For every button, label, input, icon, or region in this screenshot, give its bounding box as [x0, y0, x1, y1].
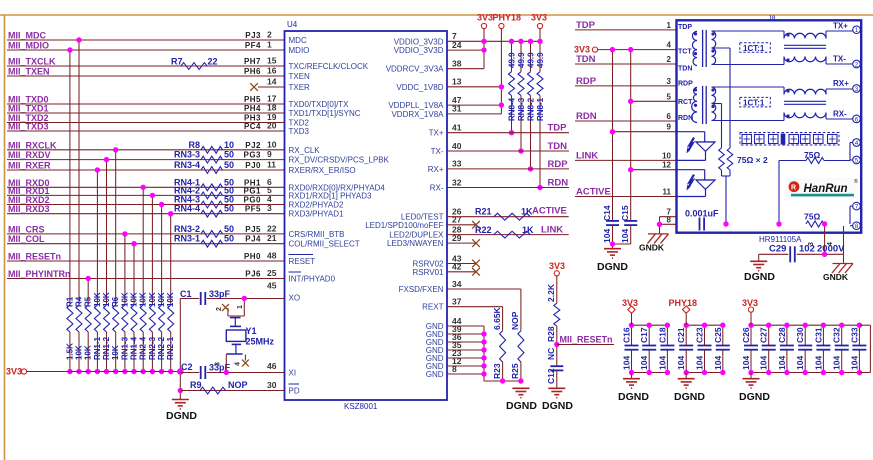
- svg-text:C18: C18: [657, 327, 667, 343]
- svg-text:RDN: RDN: [576, 111, 597, 122]
- svg-text:C25: C25: [713, 327, 723, 343]
- svg-text:RN2-4: RN2-4: [139, 336, 148, 360]
- svg-text:1CT:1: 1CT:1: [743, 44, 765, 53]
- svg-text:PH5: PH5: [244, 95, 261, 104]
- svg-text:TDP: TDP: [678, 24, 692, 31]
- svg-text:MII_PHYINTRn: MII_PHYINTRn: [8, 269, 71, 279]
- svg-text:R21: R21: [475, 207, 492, 217]
- svg-text:C26: C26: [741, 327, 751, 343]
- svg-text:PF5: PF5: [245, 205, 261, 214]
- svg-text:48: 48: [267, 251, 277, 261]
- svg-text:11: 11: [663, 188, 672, 197]
- svg-text:R25: R25: [510, 363, 520, 379]
- svg-text:50: 50: [224, 234, 234, 244]
- svg-text:RESET: RESET: [289, 257, 316, 266]
- svg-text:104: 104: [813, 356, 823, 370]
- svg-text:C29: C29: [769, 244, 786, 255]
- svg-text:2: 2: [216, 307, 223, 311]
- svg-text:DGND: DGND: [744, 271, 775, 283]
- svg-text:RDP: RDP: [548, 159, 569, 170]
- svg-text:PG0: PG0: [243, 196, 261, 205]
- svg-text:8: 8: [667, 215, 672, 224]
- svg-text:TXD0/TXD[0]/TX: TXD0/TXD[0]/TX: [289, 100, 350, 109]
- svg-text:C1: C1: [180, 289, 192, 299]
- svg-text:NOP: NOP: [228, 380, 248, 390]
- svg-text:10: 10: [267, 139, 277, 149]
- svg-text:15: 15: [267, 56, 277, 66]
- svg-text:RN2-3: RN2-3: [148, 336, 157, 360]
- svg-text:C17: C17: [639, 327, 649, 343]
- svg-text:RN8-4: RN8-4: [508, 97, 517, 121]
- svg-text:CRS/RMII_BTB: CRS/RMII_BTB: [289, 230, 345, 239]
- svg-text:RXER/RX_ER/ISO: RXER/RX_ER/ISO: [289, 166, 356, 175]
- svg-text:3V3: 3V3: [622, 298, 638, 308]
- svg-text:3V3: 3V3: [574, 45, 590, 55]
- svg-text:10K: 10K: [93, 292, 102, 307]
- svg-text:C21: C21: [676, 327, 686, 343]
- svg-text:6.65K: 6.65K: [492, 306, 502, 330]
- svg-text:3: 3: [667, 77, 672, 86]
- svg-text:PC4: PC4: [244, 122, 261, 131]
- svg-text:3: 3: [215, 362, 222, 366]
- svg-text:R5: R5: [84, 296, 93, 307]
- svg-text:MII_RXCLK: MII_RXCLK: [8, 140, 57, 150]
- svg-text:49.9: 49.9: [536, 52, 545, 68]
- svg-text:LED3/NWAYEN: LED3/NWAYEN: [387, 239, 444, 248]
- svg-text:TX-: TX-: [833, 55, 846, 64]
- svg-text:32: 32: [452, 177, 462, 187]
- svg-text:C27: C27: [759, 327, 769, 343]
- svg-text:MII_RXD3: MII_RXD3: [8, 204, 50, 214]
- svg-text:TX-: TX-: [431, 147, 444, 156]
- svg-text:11: 11: [267, 160, 276, 170]
- svg-text:DGND: DGND: [542, 400, 573, 412]
- svg-text:R8: R8: [188, 140, 200, 150]
- svg-text:R4: R4: [75, 296, 84, 307]
- svg-text:TXD3: TXD3: [289, 127, 310, 136]
- svg-text:3V3: 3V3: [742, 298, 758, 308]
- svg-text:RXD3/PHYAD1: RXD3/PHYAD1: [289, 210, 345, 219]
- svg-text:DGND: DGND: [166, 410, 197, 422]
- svg-text:MII_TXD3: MII_TXD3: [8, 122, 49, 132]
- svg-text:MII_MDIO: MII_MDIO: [8, 41, 49, 51]
- svg-text:GNDK: GNDK: [639, 243, 665, 253]
- svg-text:LINK: LINK: [541, 225, 563, 236]
- svg-text:RN1-1: RN1-1: [93, 336, 102, 360]
- svg-text:50: 50: [224, 224, 234, 234]
- svg-text:50: 50: [224, 204, 234, 214]
- svg-text:LED1/SPD100/noFEF: LED1/SPD100/noFEF: [365, 221, 443, 230]
- svg-text:104: 104: [795, 356, 805, 370]
- svg-text:21: 21: [267, 233, 277, 243]
- svg-text:RDN: RDN: [548, 178, 569, 189]
- svg-text:TXD1/TXD[1]/SYNC: TXD1/TXD[1]/SYNC: [289, 109, 361, 118]
- svg-text:10K: 10K: [75, 345, 84, 360]
- svg-text:104: 104: [676, 356, 686, 370]
- svg-text:22: 22: [208, 57, 218, 67]
- svg-text:RN2-1: RN2-1: [166, 336, 175, 360]
- svg-text:8: 8: [452, 364, 457, 374]
- svg-text:10K: 10K: [157, 292, 166, 307]
- svg-text:MDC: MDC: [289, 36, 307, 45]
- svg-text:C14: C14: [602, 205, 612, 221]
- svg-text:C15: C15: [620, 205, 630, 221]
- svg-text:75Ω: 75Ω: [804, 212, 820, 222]
- svg-text:TCT: TCT: [678, 48, 692, 55]
- svg-text:RDP: RDP: [678, 80, 693, 87]
- svg-text:NC: NC: [546, 348, 556, 360]
- svg-text:COL/RMII_SELECT: COL/RMII_SELECT: [289, 240, 360, 249]
- svg-text:C28: C28: [777, 327, 787, 343]
- svg-text:VDDIO_3V3D: VDDIO_3V3D: [394, 46, 444, 55]
- svg-text:NOP: NOP: [510, 311, 520, 330]
- svg-text:10K: 10K: [84, 345, 93, 360]
- svg-text:10K: 10K: [130, 292, 139, 307]
- svg-text:104: 104: [832, 356, 842, 370]
- svg-text:4: 4: [667, 41, 672, 50]
- svg-text:1K: 1K: [522, 225, 534, 235]
- svg-text:104: 104: [602, 229, 612, 243]
- svg-text:34: 34: [452, 279, 462, 289]
- svg-text:104: 104: [777, 356, 787, 370]
- svg-text:104: 104: [713, 356, 723, 370]
- svg-text:3V3: 3V3: [477, 13, 493, 23]
- svg-text:5: 5: [667, 92, 672, 101]
- svg-text:14: 14: [267, 77, 277, 87]
- svg-text:RX_DV/CRSDV/PCS_LPBK: RX_DV/CRSDV/PCS_LPBK: [289, 156, 390, 165]
- svg-text:RN1-2: RN1-2: [102, 336, 111, 360]
- svg-text:R22: R22: [475, 225, 492, 235]
- svg-text:XO: XO: [289, 294, 301, 303]
- svg-text:104: 104: [759, 356, 769, 370]
- svg-text:4: 4: [235, 362, 242, 366]
- svg-text:DGND: DGND: [674, 391, 705, 403]
- svg-text:PG3: PG3: [243, 151, 261, 160]
- svg-text:RN1-3: RN1-3: [120, 336, 129, 360]
- svg-text:C12: C12: [546, 368, 556, 384]
- svg-text:VDDRX_1V8A: VDDRX_1V8A: [391, 110, 444, 119]
- svg-text:MII_TXD1: MII_TXD1: [8, 104, 49, 114]
- svg-text:20: 20: [267, 121, 277, 131]
- svg-text:1: 1: [267, 40, 272, 50]
- svg-text:41: 41: [452, 123, 462, 133]
- svg-text:0.001uF: 0.001uF: [685, 208, 719, 218]
- svg-text:12: 12: [662, 161, 671, 170]
- svg-text:3: 3: [267, 203, 272, 213]
- svg-text:TDN: TDN: [548, 141, 568, 152]
- svg-text:®: ®: [854, 178, 858, 185]
- svg-text:RSRV01: RSRV01: [413, 268, 445, 277]
- svg-text:MII_COL: MII_COL: [8, 234, 45, 244]
- svg-text:MII_MDC: MII_MDC: [8, 31, 47, 41]
- svg-text:33pF: 33pF: [209, 289, 231, 299]
- svg-text:10K: 10K: [111, 345, 120, 360]
- svg-text:J8: J8: [768, 16, 776, 23]
- svg-text:RDN: RDN: [678, 115, 693, 122]
- svg-text:GND: GND: [426, 370, 444, 379]
- svg-text:104: 104: [639, 356, 649, 370]
- svg-text:104: 104: [741, 356, 751, 370]
- svg-text:16: 16: [267, 66, 277, 76]
- svg-text:MII_RXDV: MII_RXDV: [8, 150, 51, 160]
- svg-text:37: 37: [452, 297, 462, 307]
- svg-text:RX+: RX+: [428, 165, 444, 174]
- svg-text:LINK: LINK: [576, 150, 598, 161]
- svg-text:27: 27: [452, 215, 462, 225]
- svg-text:MII_TXEN: MII_TXEN: [8, 67, 50, 77]
- svg-text:TDN: TDN: [678, 65, 692, 72]
- svg-text:C23: C23: [695, 327, 705, 343]
- svg-text:9: 9: [667, 123, 672, 132]
- svg-text:HanRun: HanRun: [804, 183, 848, 195]
- svg-text:10K: 10K: [148, 292, 157, 307]
- svg-text:49.9: 49.9: [508, 52, 517, 68]
- svg-text:10K: 10K: [139, 292, 148, 307]
- svg-text:10K: 10K: [102, 292, 111, 307]
- svg-text:VDDPLL_1V8A: VDDPLL_1V8A: [388, 101, 444, 110]
- svg-text:104: 104: [849, 356, 859, 370]
- svg-text:MII_CRS: MII_CRS: [8, 224, 45, 234]
- svg-text:U4: U4: [287, 20, 298, 29]
- svg-text:R1: R1: [65, 296, 74, 307]
- svg-text:PJ6: PJ6: [245, 270, 261, 279]
- svg-text:PH4: PH4: [244, 104, 261, 113]
- svg-text:PJ3: PJ3: [245, 31, 261, 40]
- svg-text:33: 33: [452, 159, 462, 169]
- svg-text:INT/PHYAD0: INT/PHYAD0: [289, 275, 336, 284]
- svg-text:10K: 10K: [120, 292, 129, 307]
- svg-text:18: 18: [267, 103, 277, 113]
- svg-text:6: 6: [667, 112, 672, 121]
- svg-text:104: 104: [620, 229, 630, 243]
- svg-text:RX-: RX-: [430, 184, 444, 193]
- svg-text:MII_RXER: MII_RXER: [8, 161, 51, 171]
- svg-text:TXC/REFCLK/CLOCK: TXC/REFCLK/CLOCK: [289, 62, 369, 71]
- svg-text:ACTIVE: ACTIVE: [576, 187, 611, 198]
- svg-text:RCT: RCT: [678, 99, 693, 106]
- svg-text:PJ2: PJ2: [245, 141, 261, 150]
- svg-text:3V3: 3V3: [549, 261, 565, 271]
- svg-text:RX-: RX-: [833, 110, 847, 119]
- svg-text:PH0: PH0: [244, 252, 261, 261]
- svg-text:RN3-3: RN3-3: [174, 150, 200, 160]
- svg-text:VDDIO_3V3D: VDDIO_3V3D: [394, 37, 444, 46]
- svg-text:2000V: 2000V: [817, 244, 845, 255]
- svg-text:46: 46: [267, 361, 277, 371]
- svg-text:3V3: 3V3: [531, 13, 547, 23]
- svg-text:MDIO: MDIO: [289, 46, 310, 55]
- svg-text:1: 1: [667, 21, 672, 30]
- svg-text:TXER: TXER: [289, 83, 311, 92]
- svg-text:10: 10: [224, 140, 234, 150]
- svg-text:RN8-1: RN8-1: [536, 97, 545, 121]
- svg-text:RX+: RX+: [833, 79, 849, 88]
- svg-text:RXD2/PHYAD2: RXD2/PHYAD2: [289, 201, 345, 210]
- svg-text:PG1: PG1: [243, 186, 261, 195]
- svg-text:PD: PD: [289, 387, 300, 396]
- svg-text:10: 10: [662, 151, 671, 160]
- svg-text:RX_CLK: RX_CLK: [289, 146, 321, 155]
- svg-text:49.9: 49.9: [527, 52, 536, 68]
- svg-text:XI: XI: [289, 369, 297, 378]
- svg-text:49.9: 49.9: [517, 52, 526, 68]
- svg-text:TX+: TX+: [833, 22, 848, 31]
- svg-text:1.5K: 1.5K: [65, 343, 74, 360]
- svg-text:PF4: PF4: [245, 41, 261, 50]
- svg-text:50: 50: [224, 160, 234, 170]
- svg-text:TX+: TX+: [429, 129, 444, 138]
- svg-text:R: R: [791, 185, 796, 192]
- svg-text:KSZ8001: KSZ8001: [344, 402, 378, 411]
- svg-text:75Ω: 75Ω: [804, 150, 820, 160]
- svg-text:RN8-3: RN8-3: [517, 97, 526, 121]
- svg-text:RN3-2: RN3-2: [174, 224, 200, 234]
- svg-text:DGND: DGND: [597, 261, 628, 273]
- svg-text:R7: R7: [171, 57, 183, 67]
- svg-text:40: 40: [452, 141, 462, 151]
- svg-text:PH6: PH6: [244, 67, 261, 76]
- svg-text:PJ5: PJ5: [245, 225, 261, 234]
- svg-text:9: 9: [267, 149, 272, 159]
- svg-text:C33: C33: [849, 327, 859, 343]
- svg-text:104: 104: [622, 356, 632, 370]
- svg-text:75Ω × 2: 75Ω × 2: [737, 155, 768, 165]
- svg-text:38: 38: [452, 59, 462, 69]
- svg-text:102: 102: [799, 244, 815, 255]
- svg-text:50: 50: [224, 150, 234, 160]
- svg-text:VDDC_1V8D: VDDC_1V8D: [396, 83, 443, 92]
- svg-text:MII_RESETn: MII_RESETn: [8, 252, 61, 262]
- svg-text:RDP: RDP: [576, 76, 597, 87]
- svg-text:MII_TXCLK: MII_TXCLK: [8, 57, 56, 67]
- svg-text:C16: C16: [622, 327, 632, 343]
- svg-text:PHY18: PHY18: [669, 298, 698, 308]
- svg-text:C2: C2: [181, 362, 193, 372]
- svg-text:MII_RESETn: MII_RESETn: [560, 335, 613, 345]
- svg-text:C32: C32: [832, 327, 842, 343]
- svg-text:1CT:1: 1CT:1: [743, 98, 765, 107]
- svg-text:1: 1: [237, 305, 244, 309]
- svg-text:ACTIVE: ACTIVE: [532, 206, 567, 217]
- svg-text:RN8-2: RN8-2: [527, 97, 536, 121]
- svg-text:RN3-1: RN3-1: [174, 234, 200, 244]
- svg-text:PJ4: PJ4: [245, 235, 261, 244]
- svg-text:TDP: TDP: [548, 123, 568, 134]
- svg-text:DGND: DGND: [618, 391, 649, 403]
- svg-text:GNDK: GNDK: [823, 272, 849, 282]
- svg-text:C31: C31: [813, 327, 823, 343]
- svg-text:RN2-2: RN2-2: [157, 336, 166, 360]
- svg-text:3V3: 3V3: [6, 367, 22, 377]
- svg-text:2: 2: [667, 55, 672, 64]
- svg-text:13: 13: [452, 77, 462, 87]
- svg-text:R6: R6: [111, 296, 120, 307]
- svg-text:PH7: PH7: [244, 57, 261, 66]
- svg-text:TDN: TDN: [576, 54, 596, 65]
- svg-text:RN3-4: RN3-4: [174, 160, 200, 170]
- svg-text:REXT: REXT: [422, 303, 443, 312]
- svg-text:104: 104: [657, 356, 667, 370]
- svg-text:22: 22: [267, 223, 277, 233]
- svg-text:PHY18: PHY18: [493, 13, 522, 23]
- svg-text:104: 104: [695, 356, 705, 370]
- svg-text:30: 30: [267, 380, 277, 390]
- svg-text:RXD1/RXD[1] PHYAD3: RXD1/RXD[1] PHYAD3: [289, 191, 373, 200]
- svg-text:R9: R9: [190, 380, 202, 390]
- svg-text:DGND: DGND: [506, 400, 537, 412]
- svg-text:RN4-4: RN4-4: [174, 204, 200, 214]
- svg-text:TDP: TDP: [576, 20, 596, 31]
- svg-text:25MHz: 25MHz: [246, 337, 275, 347]
- svg-text:R23: R23: [492, 363, 502, 379]
- svg-text:2: 2: [267, 30, 272, 40]
- svg-text:25: 25: [267, 268, 277, 278]
- svg-text:R28: R28: [546, 326, 556, 342]
- svg-text:10K: 10K: [166, 292, 175, 307]
- svg-text:C30: C30: [795, 327, 805, 343]
- svg-text:VDDRCV_3V3A: VDDRCV_3V3A: [386, 65, 444, 74]
- svg-text:2.2K: 2.2K: [546, 283, 556, 302]
- svg-text:45: 45: [267, 281, 277, 291]
- svg-text:Y1: Y1: [246, 326, 257, 336]
- svg-text:RN1-4: RN1-4: [130, 336, 139, 360]
- svg-text:FXSD/FXEN: FXSD/FXEN: [399, 285, 444, 294]
- svg-text:DGND: DGND: [739, 391, 770, 403]
- svg-text:TXEN: TXEN: [289, 72, 311, 81]
- svg-text:PJ0: PJ0: [245, 161, 261, 170]
